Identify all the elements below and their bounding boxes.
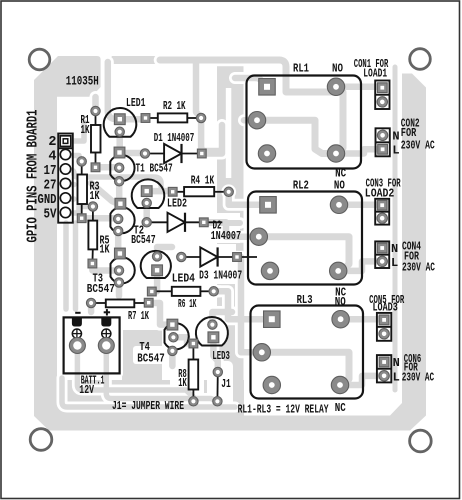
copper pour: corridor left of relays [217, 64, 244, 410]
wire segment t9 [92, 97, 99, 111]
wire segment t48 [259, 237, 349, 270]
LED LED2 [132, 179, 165, 208]
transistor T1 [110, 155, 134, 181]
wire segment t4 [66, 182, 75, 188]
copper pour: board rails [34, 56, 426, 431]
battery BATT.1 [64, 317, 120, 373]
resistor R5 [88, 207, 97, 264]
svg-text:LED4: LED4 [172, 272, 195, 286]
svg-text:L: L [393, 370, 400, 384]
svg-text:LED2: LED2 [167, 197, 187, 211]
svg-text:RL2: RL2 [293, 178, 309, 192]
mounting hole bottom-right [410, 430, 432, 452]
connector GPIO header [58, 134, 73, 223]
resistor R6 [157, 287, 214, 296]
connector CON1 [375, 81, 389, 110]
svg-text:RL1: RL1 [293, 62, 309, 76]
clearance channel inside corridor [226, 88, 232, 178]
svg-text:LED3: LED3 [212, 349, 230, 363]
relay RL1 [247, 76, 362, 169]
LED LED4 [141, 251, 171, 278]
relay RL3 [251, 306, 364, 399]
wires (copper traces) [62, 60, 395, 407]
svg-text:D3 1N4007: D3 1N4007 [199, 269, 242, 283]
svg-text:NO: NO [335, 295, 346, 309]
svg-text:4: 4 [48, 150, 56, 165]
wire segment t5 [66, 196, 75, 202]
pads: battery terminal pads [69, 338, 114, 354]
wire segment t18 [147, 188, 173, 195]
wire segment t30 [169, 351, 176, 366]
pads: relay RL3 pads [253, 311, 349, 394]
svg-text:LOAD3: LOAD3 [373, 301, 398, 315]
mounting hole top-left [29, 49, 50, 70]
diode D1 [145, 144, 202, 163]
svg-text:GND: GND [38, 193, 57, 208]
connector CON5 [377, 313, 391, 341]
transistor T3 [111, 257, 135, 283]
svg-text:BC547: BC547 [87, 282, 115, 296]
wire segment t35 [106, 346, 217, 402]
svg-text:NO: NO [334, 178, 345, 192]
wire segment t10 [96, 164, 120, 171]
wire segment t44 [202, 125, 222, 154]
svg-text:1N4007: 1N4007 [211, 229, 242, 243]
wire segment t8 [73, 223, 79, 309]
svg-text:LED1: LED1 [126, 96, 146, 110]
wire segment t54 [341, 316, 379, 323]
svg-text:230V AC: 230V AC [401, 138, 435, 152]
wire segment t14 [120, 150, 146, 157]
wire segment t45 [229, 192, 268, 205]
wire segment t37 [393, 67, 398, 390]
LED LED1 [104, 108, 137, 137]
wire segment t43 [336, 149, 377, 153]
transistor T4 [165, 323, 189, 349]
component body fills [58, 76, 391, 399]
wire segment t19 [143, 204, 150, 222]
wire segment t36 [62, 378, 235, 407]
copper pour: top band [105, 56, 286, 69]
pads: lead ring pads [77, 106, 233, 406]
svg-text:RL3: RL3 [297, 293, 313, 307]
wire segment t16 [196, 62, 201, 118]
svg-text:NO: NO [332, 62, 343, 76]
resistor R2 [146, 113, 202, 122]
resistor R8 [189, 344, 199, 402]
wire segment t28 [146, 303, 172, 325]
svg-text:2: 2 [48, 135, 56, 150]
svg-text:RL1-RL3 = 12V RELAY: RL1-RL3 = 12V RELAY [238, 402, 330, 416]
wire segment t7 [63, 223, 69, 309]
wire segment t12 [108, 62, 120, 119]
wire segment t51 [214, 291, 272, 319]
svg-text:R4 1K: R4 1K [191, 173, 215, 187]
clearance around battery [60, 308, 123, 377]
clearance around R8 [170, 351, 204, 397]
pad clearances [74, 104, 243, 409]
svg-text:R2 1K: R2 1K [163, 99, 186, 113]
svg-text:T1 BC547: T1 BC547 [136, 161, 173, 175]
LED LED3 [196, 317, 228, 345]
svg-text:GPIO PINS FROM BOARD1: GPIO PINS FROM BOARD1 [26, 109, 42, 242]
resistor R7 [91, 300, 146, 308]
connector CON6 [377, 355, 391, 382]
svg-text:R6 1K: R6 1K [178, 297, 197, 311]
svg-text:1K: 1K [100, 244, 110, 257]
svg-text:230V AC: 230V AC [402, 370, 435, 384]
svg-text:1K: 1K [81, 124, 90, 137]
wire segment t1 [66, 122, 85, 141]
wire segment t49 [339, 202, 377, 209]
svg-text:230V AC: 230V AC [402, 261, 435, 275]
wire segment t33 [213, 337, 217, 372]
wire segment t53 [262, 352, 349, 385]
svg-text:L: L [392, 143, 399, 157]
battery minus sign [75, 312, 80, 314]
svg-text:12V: 12V [79, 383, 94, 397]
pads: LED/transistor square pads [114, 114, 219, 343]
battery plus sign [104, 309, 110, 315]
wire segment t23 [92, 264, 119, 271]
wire segment t20 [82, 215, 118, 222]
wire segment t17 [201, 118, 219, 151]
wire segment t32 [212, 312, 232, 325]
copper pour: bottom-left region [57, 330, 244, 416]
wire segment t34 [77, 346, 193, 398]
wire segment t24 [116, 283, 123, 297]
svg-text:27: 27 [44, 179, 57, 194]
svg-text:N: N [393, 356, 400, 370]
wire segment t47 [204, 220, 240, 226]
wire segment t21 [91, 183, 118, 204]
svg-text:1K: 1K [178, 377, 187, 390]
wire segment t42 [336, 84, 377, 91]
connector CON3 [375, 199, 389, 225]
wire segment t22 [115, 231, 122, 254]
pads: lead square pads [77, 114, 241, 348]
svg-text:BC547: BC547 [131, 233, 156, 247]
diode D2 [147, 213, 223, 232]
pads: relay RL1 pads [248, 78, 344, 162]
connector CON4 [375, 241, 389, 268]
wire segment t38 [160, 60, 343, 153]
clearance notch around D3 label [193, 244, 236, 284]
wire segment t29 [173, 337, 193, 343]
svg-text:D1 1N4007: D1 1N4007 [154, 131, 195, 145]
relay RL2 [248, 192, 362, 285]
wire segment t52 [237, 257, 262, 352]
svg-text:NC: NC [335, 401, 346, 415]
wire segment t2 [66, 156, 82, 162]
svg-text:BC547: BC547 [137, 352, 164, 366]
resistor R4 [173, 187, 229, 196]
wire segment t31 [88, 303, 95, 312]
resistor R3 [78, 161, 88, 218]
mounting hole top-right [410, 49, 431, 70]
clearance notch around D2 label [196, 213, 240, 243]
wire segment t13 [116, 132, 123, 153]
svg-text:LOAD2: LOAD2 [365, 186, 395, 200]
svg-text:L: L [391, 256, 398, 270]
svg-text:N: N [392, 129, 399, 143]
svg-text:N: N [391, 242, 398, 256]
svg-text:J1: J1 [221, 377, 231, 391]
wire segment t46 [204, 222, 259, 236]
wire segment t15 [116, 181, 123, 204]
wire segment t26 [157, 247, 172, 256]
diode D3 [181, 247, 257, 266]
wire segment t39 [235, 78, 267, 87]
transistor T2 [110, 207, 134, 233]
wire segment t41 [257, 120, 330, 153]
wire clearance channels [62, 60, 395, 407]
svg-text:J1= JUMPER WIRE: J1= JUMPER WIRE [112, 399, 184, 413]
wire segment t40 [244, 117, 257, 124]
wire segment t55 [340, 376, 379, 385]
clearance around J1 [207, 361, 233, 408]
resistor R1 [91, 111, 101, 167]
wire segment t50 [338, 261, 377, 271]
svg-text:1K: 1K [90, 190, 100, 203]
wire segment t25 [153, 270, 160, 291]
svg-text:5V: 5V [44, 208, 58, 223]
connector CON2 [376, 128, 390, 156]
wire segment t27 [214, 288, 220, 295]
pads: connector pads CON1-CON6 [377, 83, 389, 381]
jumper J1 wire [216, 372, 218, 401]
clearance around T4 label [133, 346, 169, 364]
svg-text:R7 1K: R7 1K [128, 309, 149, 323]
wire segment t6 [66, 207, 93, 214]
pads: relay RL2 pads [250, 196, 348, 279]
wire segment t3 [66, 170, 173, 191]
wire segment t11 [120, 116, 146, 123]
svg-text:11035H: 11035H [66, 73, 99, 88]
svg-text:17: 17 [44, 164, 57, 179]
mounting hole bottom-left [30, 429, 52, 451]
svg-text:LOAD1: LOAD1 [363, 67, 387, 81]
